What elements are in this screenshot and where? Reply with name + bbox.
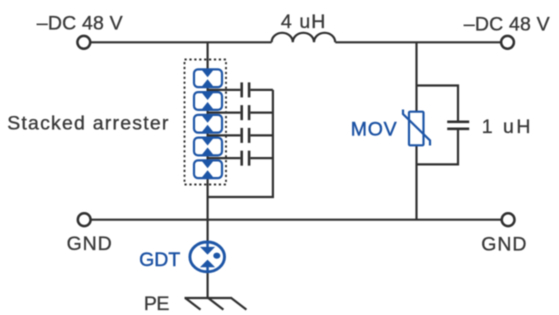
svg-text:Stacked arrester: Stacked arrester xyxy=(7,113,169,135)
svg-text:GDT: GDT xyxy=(139,249,180,271)
svg-text:MOV: MOV xyxy=(351,119,398,141)
svg-text:4 uH: 4 uH xyxy=(281,11,327,33)
svg-text:PE: PE xyxy=(144,293,170,315)
svg-text:GND: GND xyxy=(67,233,113,255)
svg-text:1 uH: 1 uH xyxy=(482,116,533,138)
svg-text:–DC 48 V: –DC 48 V xyxy=(464,13,550,35)
svg-text:–DC 48 V: –DC 48 V xyxy=(37,13,123,35)
svg-text:GND: GND xyxy=(481,234,527,256)
